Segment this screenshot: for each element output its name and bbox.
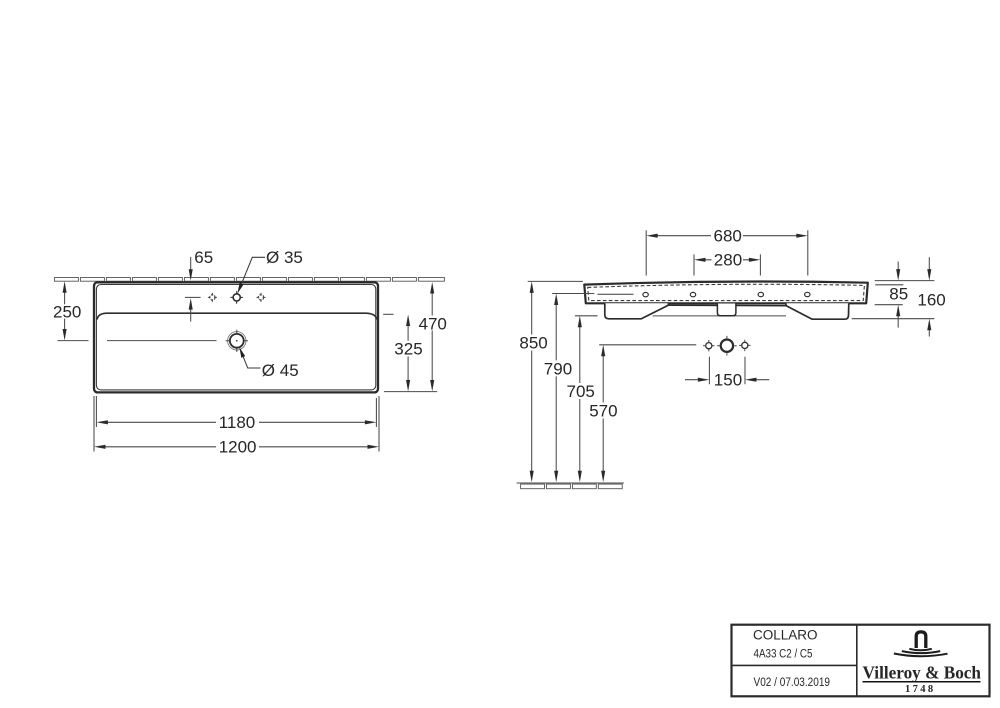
svg-text:850: 850 (519, 333, 547, 352)
dim 790 (552, 293, 594, 295)
svg-text:250: 250 (53, 302, 81, 321)
dim 850 (528, 280, 583, 282)
underside slope line (668, 304, 786, 307)
wall tiles row (54, 278, 444, 282)
dim 325 (right) (407, 325, 409, 382)
floor tiles (521, 484, 623, 489)
svg-text:150: 150 (714, 371, 742, 390)
drain centerline (58, 340, 217, 342)
dim 705 (575, 315, 598, 317)
svg-text:470: 470 (419, 314, 447, 333)
svg-text:Ø 35: Ø 35 (266, 248, 303, 267)
left tank (605, 303, 669, 319)
overflow slot line (598, 293, 634, 295)
svg-text:1180: 1180 (219, 413, 256, 432)
svg-text:Ø 45: Ø 45 (262, 361, 299, 380)
svg-text:705: 705 (567, 382, 595, 401)
svg-text:280: 280 (714, 251, 742, 270)
wall fixing holes row (703, 336, 750, 356)
bowl back line (97, 313, 377, 319)
dim 150 (709, 357, 745, 385)
dim 1200 (94, 396, 379, 452)
dim 570 (599, 344, 696, 346)
hole row extension line (185, 296, 201, 298)
svg-text:680: 680 (714, 227, 742, 246)
svg-text:325: 325 (394, 340, 422, 359)
faucet hole left option (208, 293, 217, 302)
faucet hole middle (230, 291, 243, 304)
rear bottom line (653, 315, 786, 317)
dim 85 (875, 280, 935, 282)
mounting holes (4) (643, 292, 810, 297)
title block vertical divider (856, 625, 858, 697)
svg-text:COLLARO: COLLARO (753, 628, 818, 643)
svg-text:65: 65 (194, 248, 213, 267)
drain hole (226, 330, 248, 352)
dim 250 (64, 291, 66, 330)
title block horizontal divider (732, 664, 857, 666)
svg-text:4A33 C2 / C5: 4A33 C2 / C5 (754, 646, 813, 660)
svg-text:85: 85 (889, 285, 908, 304)
svg-text:790: 790 (544, 359, 572, 378)
VB logo arch (916, 632, 926, 648)
svg-text:V02 / 07.03.2019: V02 / 07.03.2019 (754, 675, 831, 689)
dim 1180 (96, 396, 376, 427)
svg-text:Villeroy & Boch: Villeroy & Boch (863, 663, 982, 683)
basin inner rim (96, 285, 375, 390)
hidden dashed outline (588, 284, 865, 300)
dim 280 (694, 254, 760, 275)
dim 470 (right) (383, 313, 393, 315)
faucet hole right option (257, 293, 266, 302)
dim 680 (646, 230, 808, 275)
basin body outline (584, 282, 868, 304)
svg-text:1748: 1748 (905, 683, 936, 695)
svg-text:1200: 1200 (219, 438, 257, 457)
VB logo ripples (909, 649, 932, 651)
center outlet (717, 304, 736, 316)
floor line (517, 482, 624, 484)
right tank (786, 303, 849, 319)
basin outer rect (94, 282, 378, 392)
title block frame (732, 625, 990, 697)
svg-text:570: 570 (589, 402, 617, 421)
svg-text:160: 160 (917, 291, 945, 310)
dim 160 (852, 318, 935, 320)
